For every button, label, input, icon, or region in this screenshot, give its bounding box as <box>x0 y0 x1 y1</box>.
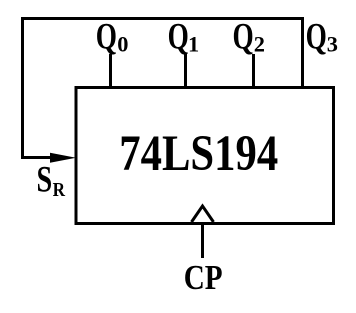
svg-text:74LS194: 74LS194 <box>119 126 278 182</box>
svg-text:Q: Q <box>168 16 189 57</box>
svg-text:R: R <box>53 179 66 201</box>
svg-text:Q: Q <box>306 16 327 57</box>
svg-text:2: 2 <box>254 32 265 57</box>
svg-text:Q: Q <box>233 16 254 57</box>
svg-text:Q: Q <box>96 16 117 57</box>
svg-text:1: 1 <box>188 32 199 57</box>
svg-text:S: S <box>37 160 53 200</box>
svg-text:CP: CP <box>184 257 223 296</box>
svg-text:3: 3 <box>327 32 338 57</box>
svg-text:0: 0 <box>117 32 128 57</box>
